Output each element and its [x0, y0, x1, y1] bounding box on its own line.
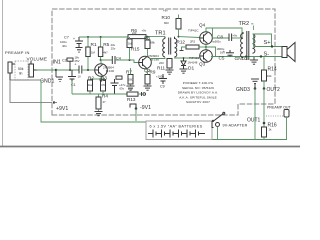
- svg-text:10k: 10k: [267, 74, 272, 78]
- svg-text:R7: R7: [126, 70, 132, 75]
- capacitor C4: [112, 56, 115, 64]
- svg-text:B:100: B:100: [106, 69, 114, 73]
- wire Q1 emitter to bias: [100, 76, 102, 79]
- wire C4 to Q2 base: [115, 60, 139, 63]
- enclosure dashed boundary: [52, 9, 275, 115]
- svg-text:Q4: Q4: [199, 23, 206, 28]
- wire speaker minus: [250, 56, 282, 58]
- terminal -9V1: [130, 104, 136, 109]
- svg-text:GND1: GND1: [40, 79, 55, 85]
- svg-text:R11: R11: [157, 66, 166, 71]
- svg-text:+9v: +9v: [163, 9, 168, 13]
- node Q3/Q4 junction: [205, 46, 207, 48]
- svg-text:A.K.A. SPITEFUL SMILE: A.K.A. SPITEFUL SMILE: [179, 95, 217, 99]
- ground on speaker line: [250, 57, 258, 65]
- page frame left edge: [2, 0, 4, 147]
- wire emitter bus: [72, 93, 127, 95]
- wire TR1 primary bottom to Q2 collector: [150, 58, 166, 59]
- svg-text:Q3: Q3: [199, 62, 206, 67]
- svg-text:R10: R10: [162, 15, 171, 20]
- svg-text:1M: 1M: [91, 51, 96, 55]
- svg-text:+: +: [73, 37, 75, 41]
- svg-text:GND3: GND3: [236, 87, 250, 93]
- wire pot wiper to IN1: [37, 69, 57, 71]
- wire C1 to base Q1: [82, 69, 95, 71]
- ground GND1 symbol: [56, 70, 63, 82]
- svg-text:D1: D1: [188, 66, 194, 72]
- svg-text:9V-ADAPTER: 9V-ADAPTER: [223, 124, 248, 128]
- wire TR2 secondary top: [253, 34, 254, 47]
- svg-text:68k: 68k: [151, 41, 156, 45]
- svg-text:+9v: +9v: [233, 34, 238, 38]
- svg-text:560: 560: [129, 78, 134, 82]
- wire Q4 collector loop to TR2: [206, 28, 242, 32]
- svg-text:40v: 40v: [62, 44, 67, 48]
- transistor Q1: [95, 64, 108, 77]
- svg-text:820: 820: [164, 21, 169, 25]
- svg-text:no500u: no500u: [212, 40, 221, 44]
- wire adapter to rail: [217, 127, 219, 140]
- svg-text:VOLUME: VOLUME: [27, 57, 48, 62]
- svg-text:DRAWN BY LISOVOY A.A.: DRAWN BY LISOVOY A.A.: [178, 91, 219, 95]
- capacitor C3: [111, 79, 119, 94]
- resistor R15: [127, 39, 132, 48]
- svg-text:R15: R15: [131, 47, 140, 52]
- svg-text:IN1: IN1: [53, 60, 61, 66]
- node GND3: [254, 87, 257, 90]
- svg-text:GND2: GND2: [235, 56, 249, 62]
- battery holder box: [146, 121, 212, 140]
- svg-text:C7: C7: [64, 36, 69, 40]
- wire GND3 down to OUT1: [254, 89, 256, 140]
- wire Q3 emitter to output line: [205, 57, 207, 63]
- ground under D1: [180, 69, 188, 73]
- svg-text:C8: C8: [217, 35, 223, 40]
- resistor R2: [89, 79, 91, 80]
- node OUT2: [263, 87, 266, 90]
- svg-text:63v: 63v: [120, 87, 125, 91]
- wire Q1 collector up: [101, 60, 112, 64]
- adapter plug symbol: [212, 122, 220, 128]
- wire preamp out return: [286, 117, 288, 140]
- svg-text:TIP41C: TIP41C: [189, 56, 200, 60]
- transistor Q2: [139, 56, 152, 69]
- resistor R8: [145, 40, 150, 49]
- svg-text:PREAMP IN: PREAMP IN: [5, 50, 30, 55]
- svg-text:OUT2: OUT2: [267, 87, 281, 93]
- svg-text:R9: R9: [150, 70, 156, 75]
- wire speaker plus: [254, 46, 283, 48]
- svg-text:lin: lin: [19, 72, 23, 76]
- jack preamp out: [284, 110, 289, 118]
- wire TR2 primary bottom: [242, 57, 244, 58]
- resistor R14: [263, 57, 265, 71]
- svg-text:TR2: TR2: [239, 21, 250, 27]
- ground GND3 symbol: [251, 79, 259, 89]
- capacitor C1: [68, 70, 76, 83]
- svg-text:50k: 50k: [18, 67, 24, 71]
- svg-text:OUT1: OUT1: [247, 118, 261, 124]
- pot dashed outline: [15, 61, 28, 80]
- wire R6 to TR1: [146, 36, 165, 38]
- potentiometer VOLUME body: [29, 61, 37, 77]
- page frame bottom edge: [0, 146, 300, 148]
- svg-text:4k7: 4k7: [103, 51, 108, 55]
- resistor R13: [127, 92, 138, 96]
- svg-text:SERIAL NO: 05/5429: SERIAL NO: 05/5429: [182, 86, 214, 90]
- svg-text:TR1: TR1: [155, 31, 166, 37]
- svg-text:47: 47: [103, 100, 107, 104]
- svg-text:25v: 25v: [111, 47, 116, 51]
- svg-text:TIP41C: TIP41C: [188, 29, 199, 33]
- title block text: [178, 81, 219, 104]
- svg-text:+: +: [223, 49, 225, 53]
- svg-text:R12: R12: [177, 40, 186, 45]
- svg-text:+9V1: +9V1: [56, 106, 68, 112]
- svg-text:R3: R3: [101, 76, 107, 81]
- svg-text:R2: R2: [88, 76, 94, 81]
- wire -9V1 to battery: [135, 109, 137, 122]
- wire bottom rail: [212, 139, 287, 141]
- switch S1: [214, 112, 225, 121]
- svg-text:R14: R14: [268, 67, 277, 73]
- svg-text:C2: C2: [62, 59, 67, 63]
- svg-text:PIONEER T-100-PG: PIONEER T-100-PG: [183, 81, 214, 85]
- battery B1 cells: [148, 130, 205, 138]
- node +9V1: [53, 101, 55, 103]
- ground under R7: [127, 86, 135, 90]
- svg-text:+: +: [75, 63, 77, 67]
- svg-text:PREAMP OUT: PREAMP OUT: [267, 106, 292, 110]
- ground under R4: [95, 112, 103, 116]
- svg-text:SARATOV 2007: SARATOV 2007: [186, 100, 210, 104]
- resistor R4: [98, 94, 100, 97]
- svg-text:1N4148: 1N4148: [188, 61, 198, 65]
- svg-text:1k8: 1k8: [128, 42, 133, 46]
- wire OUT2 down to R16: [263, 89, 265, 128]
- svg-text:1k2: 1k2: [88, 83, 93, 87]
- ground under R11: [166, 70, 174, 74]
- svg-text:R4: R4: [102, 94, 108, 99]
- resistor R3: [102, 79, 104, 80]
- capacitor C2: [67, 58, 73, 70]
- wire +9V rail top: [79, 36, 128, 38]
- wire TR1 secondary bottom to Q3 base: [175, 57, 200, 60]
- svg-text:10: 10: [78, 75, 82, 79]
- jack J1 preamp input: [8, 62, 15, 80]
- diode D1: [181, 58, 186, 69]
- resistor R1: [87, 37, 89, 47]
- terminal at R13 right: [142, 92, 146, 96]
- svg-text:6 x 1.5V "AA" BATTERIES: 6 x 1.5V "AA" BATTERIES: [150, 125, 203, 129]
- svg-text:220: 220: [159, 61, 164, 65]
- svg-text:R1: R1: [91, 42, 97, 48]
- wire TR1 to Q4 base: [179, 36, 201, 39]
- wire IN1 to C1: [56, 69, 79, 71]
- wire jack sleeve bottom: [10, 79, 40, 81]
- svg-text:C5: C5: [219, 56, 225, 61]
- ground under R9: [144, 86, 152, 90]
- svg-text:470: 470: [101, 83, 106, 87]
- wire green ground bus down-left: [41, 80, 146, 122]
- svg-text:S+: S+: [264, 40, 271, 46]
- svg-text:R5: R5: [103, 42, 109, 48]
- wire ground loop to +9V1: [10, 80, 52, 103]
- speaker LS1: [282, 43, 295, 62]
- svg-text:+9v: +9v: [142, 29, 147, 33]
- resistor R5: [100, 37, 102, 47]
- dotted link OUT1 to jack: [266, 115, 284, 117]
- svg-text:R13: R13: [127, 97, 136, 102]
- capacitor series input: [79, 66, 82, 74]
- svg-text:2R2: 2R2: [190, 40, 196, 44]
- svg-text:C9: C9: [160, 85, 165, 89]
- svg-text:-9V1: -9V1: [140, 105, 151, 111]
